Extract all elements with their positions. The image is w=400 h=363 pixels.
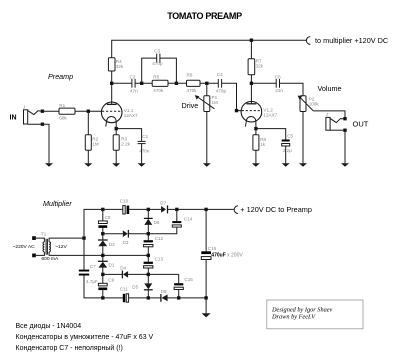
svg-text:D1: D1 xyxy=(109,262,115,267)
resistor R5 xyxy=(152,80,168,86)
svg-text:Designed by Igor Shaev: Designed by Igor Shaev xyxy=(271,306,333,313)
wire C5 to ground xyxy=(285,146,287,163)
wire jack sleeve to ground xyxy=(28,124,49,163)
wire R7 to plate V1.2 xyxy=(250,75,252,104)
wire D4 to C15 branch xyxy=(128,273,179,275)
ground P2 xyxy=(299,163,307,167)
wire R5 to R6 xyxy=(168,82,187,84)
jack J output xyxy=(326,117,330,130)
wire C7 to bottom rail xyxy=(84,276,123,298)
wire D2 to D1 xyxy=(102,246,104,261)
ground R2 xyxy=(84,163,92,167)
node D3 anode tap xyxy=(102,233,104,235)
svg-text:1M: 1M xyxy=(212,100,219,105)
node AC top on rail column C8 xyxy=(102,208,104,210)
triode V1.1 xyxy=(101,102,122,123)
wire left rail to C7 xyxy=(83,238,85,270)
ground C1 xyxy=(138,163,146,167)
wire C3 branch xyxy=(142,58,177,83)
connector arc to multiplier xyxy=(306,37,310,45)
node plate V1.2 xyxy=(250,82,252,84)
wire node to P1 xyxy=(206,83,208,96)
svg-text:R6: R6 xyxy=(187,72,193,77)
node R2 tap xyxy=(87,110,89,112)
capacitor C3 xyxy=(156,54,158,63)
svg-text:C8: C8 xyxy=(105,215,111,220)
resistor R6 xyxy=(187,80,201,86)
jack output tip contact xyxy=(330,118,345,122)
wire multiplier top rail xyxy=(84,209,234,238)
svg-text:12AX7: 12AX7 xyxy=(124,113,138,118)
jack tip contact xyxy=(28,111,43,115)
node P1 tap xyxy=(206,82,208,84)
svg-text:C10: C10 xyxy=(120,199,129,204)
node right of R5/C3 xyxy=(175,82,177,84)
wire C1 to ground xyxy=(141,144,143,164)
node rail column D6 xyxy=(147,208,149,210)
svg-text:T1: T1 xyxy=(41,232,47,237)
winding primary xyxy=(43,242,44,252)
ground C5 xyxy=(282,163,290,167)
svg-text:1k: 1k xyxy=(260,142,266,147)
node supply tap R7 xyxy=(250,39,252,41)
wire C8 to D2 xyxy=(102,228,104,240)
capacitor C2 xyxy=(131,79,133,88)
node C16 bottom rail xyxy=(205,297,207,299)
wire D6 to C12 xyxy=(147,225,149,240)
resistor R1 xyxy=(59,108,75,114)
node out tip xyxy=(344,118,346,120)
capacitor C8 electrolytic xyxy=(102,209,104,221)
diode D2 xyxy=(98,239,108,241)
svg-text:12AX7: 12AX7 xyxy=(263,112,277,117)
svg-text:68k: 68k xyxy=(59,115,67,120)
wire jack tip to R1 xyxy=(42,110,59,112)
wire C2 to R5 xyxy=(135,82,152,84)
wire cathode V1.2 xyxy=(255,121,257,134)
svg-text:32k: 32k xyxy=(116,64,124,69)
wire secondary top to left rail xyxy=(49,238,84,242)
node jack sleeve xyxy=(41,123,43,125)
wire C4 to grid V1.2 xyxy=(222,83,242,110)
wire D5 to bottom rail xyxy=(147,290,149,298)
node cathode V1.2 xyxy=(255,127,257,129)
wire P1 to ground xyxy=(206,112,208,164)
svg-text:Конденсаторы в умножителе - 47: Конденсаторы в умножителе - 47uF x 63 V xyxy=(16,334,154,341)
svg-text:Конденсатор С7 - неполярный (!: Конденсатор С7 - неполярный (!) xyxy=(16,344,123,352)
capacitor C9 electrolytic xyxy=(98,283,107,286)
svg-text:1M: 1M xyxy=(92,142,99,147)
resistor R7 xyxy=(248,59,255,75)
node rail column C16 xyxy=(205,208,207,210)
core transformer xyxy=(45,239,47,255)
svg-text:Preamp: Preamp xyxy=(48,72,73,81)
resistor R8 xyxy=(253,135,259,151)
resistor R4 xyxy=(108,58,115,71)
wire primary top xyxy=(34,238,44,242)
node plate V1.1 xyxy=(111,82,113,84)
resistor R3 xyxy=(113,135,119,151)
svg-text:32k: 32k xyxy=(256,64,264,69)
svg-text:C13: C13 xyxy=(155,256,164,261)
capacitor C11 electrolytic xyxy=(123,294,125,302)
connector arc to preamp xyxy=(234,206,238,214)
node rail column C14 xyxy=(176,208,178,210)
node C12 top xyxy=(147,233,149,235)
svg-text:C1: C1 xyxy=(142,134,148,139)
node jack tip xyxy=(41,110,43,112)
diode D6 xyxy=(147,209,149,218)
svg-text:C12: C12 xyxy=(155,236,164,241)
diode D7 xyxy=(161,206,166,213)
wire C14 to node row xyxy=(148,227,177,234)
ground R8 xyxy=(252,163,260,167)
node D5 bottom rail xyxy=(147,297,149,299)
wire out sleeve xyxy=(330,129,345,131)
wire C12 to C13 xyxy=(147,247,149,262)
svg-text:470k: 470k xyxy=(153,88,164,93)
wire R2 to ground xyxy=(87,150,89,163)
node primary top terminal xyxy=(33,237,36,240)
svg-text:470n: 470n xyxy=(139,148,150,153)
wire R1 to grid V1.1 xyxy=(75,110,102,112)
capacitor C10 electrolytic xyxy=(123,206,125,214)
svg-text:22n: 22n xyxy=(275,88,283,93)
ground R3 xyxy=(112,163,120,167)
ground P1 xyxy=(203,163,211,167)
capacitor C14 electrolytic xyxy=(176,209,178,221)
wire C13 to D5 xyxy=(147,268,149,283)
node secondary top xyxy=(83,237,85,239)
node primary bottom terminal xyxy=(33,254,36,257)
wire D3 to node xyxy=(128,233,148,235)
svg-text:C14: C14 xyxy=(184,216,193,221)
node C13 bottom D4 row xyxy=(147,273,149,275)
svg-text:470k: 470k xyxy=(187,88,198,93)
diode D1 xyxy=(98,260,108,262)
svg-text:Multiplier: Multiplier xyxy=(43,199,72,208)
svg-text:J: J xyxy=(23,104,25,109)
ground multiplier xyxy=(202,313,211,317)
credits box xyxy=(267,300,363,329)
wire out sleeve to ground xyxy=(344,130,346,163)
triode V1.2 xyxy=(241,101,262,122)
svg-text:C15: C15 xyxy=(184,277,193,282)
svg-text:100k: 100k xyxy=(309,101,320,106)
svg-text:D7: D7 xyxy=(160,200,166,205)
wire C9 to bottom rail xyxy=(102,290,104,298)
wire cathode V1.1 xyxy=(115,121,117,134)
capacitor C12 electrolytic xyxy=(144,240,153,242)
wire C16 to bottom rail and ground xyxy=(205,260,207,314)
node secondary bottom crossing xyxy=(102,254,104,256)
svg-text:C7: C7 xyxy=(90,264,96,269)
node cathode V1.1 xyxy=(115,127,117,129)
wire P2 to ground xyxy=(302,112,304,164)
jack J input xyxy=(24,110,28,124)
wire R8 to ground xyxy=(255,150,257,163)
svg-text:47n: 47n xyxy=(130,88,138,93)
svg-text:C9: C9 xyxy=(108,277,114,282)
ground input jack xyxy=(45,163,53,167)
diode D4 xyxy=(103,273,123,275)
svg-text:D3: D3 xyxy=(123,240,129,245)
ground output jack xyxy=(341,163,349,167)
potentiometer P2 xyxy=(300,96,306,112)
wire primary bottom xyxy=(34,252,44,256)
wire plate V1.2 to C6 xyxy=(251,82,276,84)
wire node to R2 xyxy=(87,111,89,135)
svg-text:Volume: Volume xyxy=(318,84,342,93)
wire C6 to P2 xyxy=(280,83,304,96)
svg-text:IN: IN xyxy=(10,115,17,122)
wire D1 to C9 xyxy=(102,268,104,284)
wire cathode to C1 xyxy=(116,129,141,142)
node D4 anode tap xyxy=(102,273,104,275)
svg-text:470uF x 200V: 470uF x 200V xyxy=(211,253,243,259)
diode D3 xyxy=(103,233,123,235)
svg-text:R1: R1 xyxy=(59,103,65,108)
wire P2 wiper to out jack xyxy=(313,111,345,119)
node C9 bottom rail xyxy=(102,297,104,299)
svg-text:OUT: OUT xyxy=(353,119,369,128)
svg-text:~12V: ~12V xyxy=(55,244,67,250)
diode D8 xyxy=(160,294,162,302)
node left of R5/C3 xyxy=(141,82,143,84)
capacitor C4 xyxy=(217,79,219,88)
wire cathode to C5 xyxy=(256,129,286,140)
svg-text:J: J xyxy=(326,112,328,117)
wire plate row C2 to C3/R5 xyxy=(112,82,132,84)
svg-text:2.2k: 2.2k xyxy=(121,142,130,147)
winding secondary xyxy=(49,242,50,252)
diode D5 xyxy=(144,283,152,289)
wire secondary bottom xyxy=(49,252,148,256)
svg-text:4.7µF: 4.7µF xyxy=(86,279,98,284)
svg-text:D2: D2 xyxy=(109,242,115,247)
svg-text:Drawn by FeeLV: Drawn by FeeLV xyxy=(271,314,316,321)
node C15 bottom rail xyxy=(178,297,180,299)
capacitor C13 electrolytic xyxy=(144,262,153,264)
svg-text:Drive: Drive xyxy=(182,101,199,110)
svg-text:C11: C11 xyxy=(120,287,129,292)
node out sleeve xyxy=(344,129,346,131)
svg-text:C5: C5 xyxy=(287,133,293,138)
svg-text:to multiplier +120V DC: to multiplier +120V DC xyxy=(315,36,388,45)
wire R3 to ground xyxy=(115,150,117,163)
svg-text:470p: 470p xyxy=(216,88,227,93)
wire C15 to bottom rail xyxy=(178,290,180,298)
svg-text:~220V AC: ~220V AC xyxy=(13,244,36,250)
node C12 C13 secondary return xyxy=(147,254,149,256)
node grid corner V1.2 xyxy=(235,109,237,111)
svg-text:R5: R5 xyxy=(153,74,159,79)
svg-text:+ 120V DC to Preamp: + 120V DC to Preamp xyxy=(240,205,312,214)
svg-text:C6: C6 xyxy=(275,75,281,80)
wire R4 to plate V1.1 xyxy=(111,71,113,104)
svg-text:C4: C4 xyxy=(217,72,223,77)
svg-text:D4: D4 xyxy=(120,266,126,271)
svg-text:C3: C3 xyxy=(154,48,160,53)
capacitor C6 xyxy=(275,79,277,88)
svg-text:470p: 470p xyxy=(152,61,163,66)
wire top supply rail preamp xyxy=(112,40,307,58)
svg-text:D8: D8 xyxy=(161,289,167,294)
capacitor C16 electrolytic xyxy=(205,209,207,251)
svg-text:C2: C2 xyxy=(130,75,136,80)
capacitor C7 xyxy=(79,270,89,272)
wire rail to R7 xyxy=(250,40,252,59)
capacitor C15 electrolytic xyxy=(178,274,180,283)
wire R6 to C4 xyxy=(200,82,218,84)
svg-text:D6: D6 xyxy=(154,220,160,225)
potentiometer P1 xyxy=(204,96,210,112)
svg-text:D5: D5 xyxy=(132,284,138,289)
wire bottom rail D8 to C16 xyxy=(168,297,207,299)
svg-text:C16: C16 xyxy=(208,246,217,251)
wire bottom rail C11 to D8 xyxy=(129,297,161,299)
svg-text:Все диоды - 1N4004: Все диоды - 1N4004 xyxy=(16,323,82,330)
capacitor C1 xyxy=(138,140,146,142)
svg-text:2.2µ: 2.2µ xyxy=(283,148,292,153)
svg-text:TOMATO PREAMP: TOMATO PREAMP xyxy=(167,11,242,21)
resistor R2 xyxy=(85,135,91,151)
capacitor C5 electrolytic xyxy=(282,140,290,142)
svg-text:600 mA: 600 mA xyxy=(41,256,59,262)
